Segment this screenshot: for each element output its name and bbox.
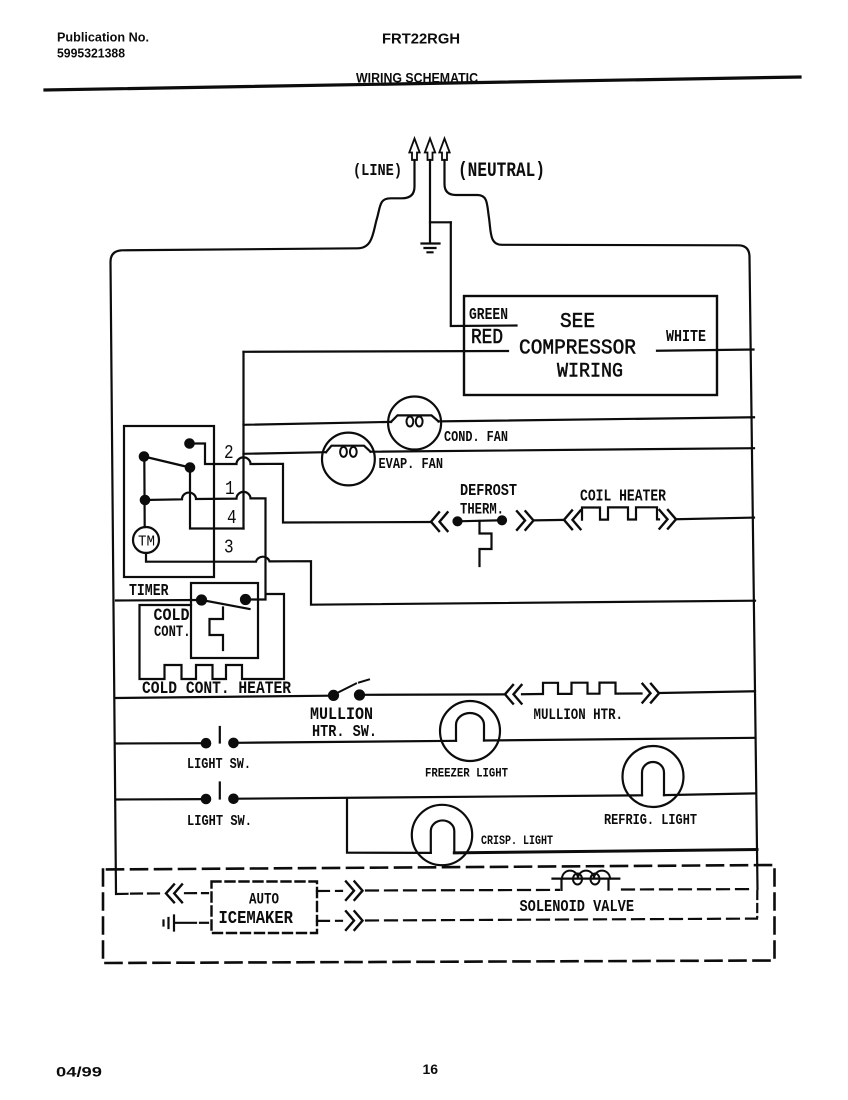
wire: neutral prong curve + outer top edge right + right border: [445, 160, 758, 889]
plug prong arrow (ground): [425, 139, 435, 161]
cond fan motor circle: [388, 397, 441, 450]
arrows >> (icemaker out top): [346, 882, 363, 900]
svg-text:2: 2: [224, 443, 234, 465]
svg-text:WHITE: WHITE: [666, 327, 706, 347]
wire: freezer light to right border: [484, 738, 755, 741]
cold control contact dot right: [241, 595, 250, 604]
wire: timer pin 4 (C vertical to V1 bottom): [190, 468, 244, 529]
wire: solenoid to right border (dashed): [622, 888, 754, 891]
crisper light filament: [431, 820, 455, 852]
svg-text:SEE: SEE: [560, 310, 595, 334]
dashed enclosure box: [103, 865, 775, 963]
svg-text:LIGHT SW.: LIGHT SW.: [187, 757, 251, 774]
refrig light filament: [642, 762, 664, 795]
wire: left border to icemaker (dashed): [131, 892, 163, 894]
timer contact dot B: [140, 452, 148, 460]
timer motor TM: [133, 527, 159, 553]
wire: left border to cold control: [116, 599, 198, 602]
wire: ground prong stem: [430, 160, 451, 222]
freezer light circle: [440, 701, 500, 761]
timer switch arm B-C: [144, 457, 190, 468]
refrig light circle: [623, 746, 684, 807]
svg-text:EVAP. FAN: EVAP. FAN: [379, 457, 444, 474]
svg-text:THERM.: THERM.: [460, 502, 504, 519]
svg-text:16: 16: [423, 1061, 439, 1077]
wire: timer pin 2 to defrost feed (hump over V1): [190, 444, 432, 523]
wire: timer pin 1 to cold control (humps, down V2): [145, 492, 266, 600]
wire: line prong curve + outer top edge left + left border: [111, 160, 415, 894]
wire: icemaker to solenoid (dashed, top): [317, 890, 342, 892]
wire: branch down to crisper line: [347, 799, 431, 853]
arrows >> (mullion heater right): [643, 684, 660, 703]
freezer light filament: [456, 713, 484, 741]
solenoid valve coil: [553, 879, 620, 890]
svg-text:TM: TM: [138, 534, 155, 551]
arrows << (mullion heater left): [505, 685, 522, 704]
wire: B down to TM: [143, 457, 146, 528]
light switch 1 plunger tick: [219, 727, 221, 743]
svg-text:LIGHT SW.: LIGHT SW.: [187, 814, 252, 831]
svg-text:GREEN: GREEN: [469, 307, 508, 325]
header rule line: [45, 77, 800, 90]
arrows >> (icemaker out bottom): [346, 911, 363, 930]
timer contact dot A: [185, 439, 193, 447]
arrows >> (defrost right): [517, 511, 534, 530]
light switch 2 plunger tick: [219, 783, 221, 799]
wire: timer pin 3 to right border (hump over V2): [146, 553, 755, 605]
svg-text:04/99: 04/99: [56, 1064, 102, 1080]
wire: condenser fan line: [244, 417, 755, 425]
cold control contact dot left: [197, 596, 206, 605]
svg-text:MULLION HTR.: MULLION HTR.: [534, 707, 624, 725]
wire: dashed vertical joining solenoid line: [756, 891, 758, 917]
cold control box: [191, 583, 258, 658]
wire: V1 red feed vertical: [242, 352, 244, 529]
wire: to refrig light: [238, 795, 642, 798]
svg-text:SOLENOID VALVE: SOLENOID VALVE: [520, 897, 635, 917]
wire: freezer light line left: [116, 742, 202, 744]
wire: refrig light to right border: [664, 793, 755, 795]
svg-text:FRT22RGH: FRT22RGH: [382, 31, 460, 48]
arrows << (coil heater left): [564, 511, 581, 530]
light switch 2 dot left: [202, 795, 210, 803]
wire: coil heater to right border: [676, 518, 754, 520]
svg-text:WIRING: WIRING: [557, 360, 623, 383]
timer contact dot C: [186, 463, 194, 471]
wire segment to coil heater: [534, 519, 564, 522]
wire: mullion line to heater: [364, 693, 504, 696]
evap fan coil symbol: [326, 446, 371, 453]
cold control switch arm: [202, 600, 250, 609]
svg-text:(LINE): (LINE): [353, 161, 402, 181]
svg-text:4: 4: [227, 508, 237, 530]
svg-text:COIL HEATER: COIL HEATER: [580, 488, 666, 506]
arrows >> (coil heater right): [660, 510, 677, 529]
svg-text:COLD: COLD: [154, 605, 190, 626]
plug prong arrow (line): [409, 139, 419, 161]
arrows << (defrost left): [431, 512, 448, 531]
wire: to freezer light: [238, 741, 456, 743]
light switch 2 dot right: [229, 795, 237, 803]
coil heater element: [582, 507, 659, 519]
svg-text:1: 1: [225, 479, 235, 501]
wire: white (compressor to right border): [657, 350, 754, 351]
svg-text:HTR. SW.: HTR. SW.: [312, 722, 377, 742]
light switch 1 dot right: [229, 739, 237, 747]
svg-text:CONT.: CONT.: [154, 625, 191, 642]
svg-text:COMPRESSOR: COMPRESSOR: [519, 337, 636, 361]
cond fan coil symbol: [391, 415, 439, 422]
wire: mullion heater to right border: [660, 691, 755, 693]
wire: crisper light to right border: [454, 850, 757, 853]
svg-text:RED: RED: [471, 326, 503, 350]
svg-text:AUTO: AUTO: [249, 891, 279, 909]
svg-text:CRISP. LIGHT: CRISP. LIGHT: [481, 835, 553, 848]
cold cont heater enclosure with heater wave: [140, 594, 285, 679]
auto icemaker dashed box: [212, 882, 318, 934]
defrost therm contact dot 2: [498, 516, 506, 524]
svg-text:5995321388: 5995321388: [57, 46, 125, 61]
svg-text:REFRIG. LIGHT: REFRIG. LIGHT: [604, 813, 697, 830]
svg-text:DEFROST: DEFROST: [460, 481, 517, 501]
svg-text:FREEZER LIGHT: FREEZER LIGHT: [425, 765, 508, 780]
svg-text:TIMER: TIMER: [129, 583, 169, 601]
wire: green (from plug ground branch into box): [451, 222, 517, 326]
wire: icemaker bottom return (dashed): [317, 920, 342, 922]
cold control bellows: [210, 608, 224, 651]
mullion switch arm: [334, 680, 369, 695]
plug prong arrow (neutral): [439, 139, 449, 161]
defrost therm arm: [458, 520, 503, 521]
timer contact dot D: [141, 496, 149, 504]
svg-text:(NEUTRAL): (NEUTRAL): [458, 161, 545, 183]
wire: red (compressor to node V1): [244, 350, 509, 353]
evap fan motor circle: [322, 433, 375, 486]
defrost therm bimetal tail: [480, 521, 492, 566]
mullion switch dot right: [355, 691, 364, 700]
mullion switch dot left: [329, 691, 338, 700]
crisper light circle: [412, 805, 472, 865]
mullion heater element: [522, 683, 642, 695]
ground symbol: [422, 222, 440, 252]
svg-text:Publication No.: Publication No.: [57, 30, 149, 45]
compressor box: [464, 296, 717, 395]
svg-text:COND. FAN: COND. FAN: [444, 430, 508, 447]
wire: refrig light line left: [116, 798, 202, 801]
wire: evaporator fan line: [244, 448, 755, 454]
svg-text:ICEMAKER: ICEMAKER: [219, 909, 294, 930]
svg-text:3: 3: [224, 537, 234, 559]
light switch 1 dot left: [202, 739, 210, 747]
wire: mullion line left: [116, 696, 329, 698]
arrows << (icemaker feed): [166, 885, 182, 903]
icemaker ground symbol: [164, 916, 197, 931]
timer box: [124, 426, 214, 577]
defrost therm contact dot 1: [454, 517, 462, 525]
